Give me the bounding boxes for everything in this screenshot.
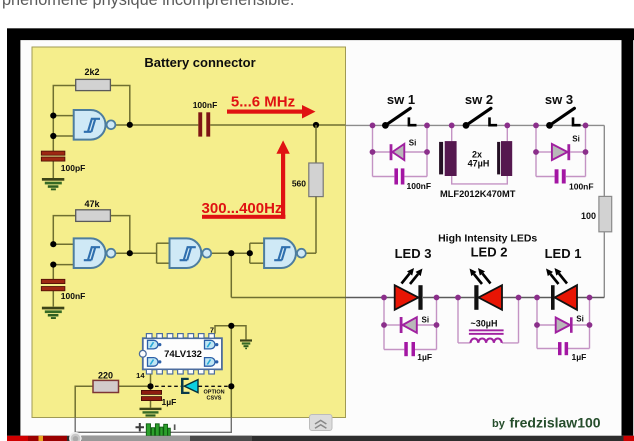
svg-text:7: 7	[210, 326, 214, 335]
svg-text:1µF: 1µF	[162, 397, 177, 407]
svg-text:74LV132: 74LV132	[164, 349, 202, 360]
svg-text:Si: Si	[409, 138, 417, 147]
svg-text:sw 3: sw 3	[545, 92, 573, 107]
svg-text:100pF: 100pF	[61, 163, 86, 173]
svg-text:100nF: 100nF	[407, 181, 432, 191]
svg-text:Battery connector: Battery connector	[144, 55, 255, 70]
svg-text:sw 1: sw 1	[387, 92, 415, 107]
svg-text:100nF: 100nF	[61, 291, 86, 301]
svg-text:Si: Si	[422, 316, 430, 325]
svg-text:1µF: 1µF	[572, 352, 587, 362]
svg-text:100: 100	[581, 211, 596, 221]
svg-text:fredzislaw100: fredzislaw100	[510, 415, 601, 431]
svg-text:560: 560	[292, 179, 306, 189]
svg-text:CSVS: CSVS	[207, 396, 222, 402]
svg-text:MLF2012K470MT: MLF2012K470MT	[440, 189, 516, 199]
svg-text:100nF: 100nF	[569, 182, 594, 192]
svg-text:14: 14	[136, 371, 145, 380]
svg-text:2k2: 2k2	[84, 67, 99, 77]
svg-text:sw 2: sw 2	[465, 92, 493, 107]
svg-text:by: by	[492, 418, 506, 430]
svg-text:High Intensity LEDs: High Intensity LEDs	[438, 233, 537, 245]
svg-text:1µF: 1µF	[417, 352, 432, 362]
svg-text:5...6 MHz: 5...6 MHz	[231, 94, 295, 111]
svg-text:LED 2: LED 2	[471, 244, 508, 259]
svg-text:47k: 47k	[84, 199, 100, 209]
svg-text:LED 3: LED 3	[395, 246, 432, 261]
svg-text:100nF: 100nF	[193, 100, 218, 110]
svg-text:Si: Si	[572, 135, 580, 144]
svg-text:Si: Si	[576, 315, 584, 324]
svg-text:300...400Hz: 300...400Hz	[202, 200, 283, 217]
svg-text:47µH: 47µH	[468, 159, 490, 169]
svg-text:220: 220	[98, 371, 113, 381]
svg-text:~30µH: ~30µH	[471, 319, 498, 329]
svg-text:LED 1: LED 1	[545, 246, 582, 261]
